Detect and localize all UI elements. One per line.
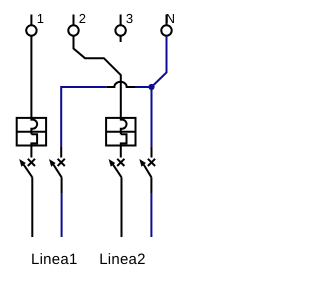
wire neutral horizontal right (blue) xyxy=(136,86,152,88)
wire below S3 xyxy=(121,177,123,237)
svg-text:3: 3 xyxy=(126,11,133,26)
wire T1 to breaker box 1 xyxy=(30,36,32,118)
wire stub T3 xyxy=(120,36,122,42)
wire T2 to breaker box 2 xyxy=(74,36,121,118)
svg-text:2: 2 xyxy=(79,11,86,26)
breaker box 1 magnetic element xyxy=(31,118,37,134)
wire neutral branch down to switch 2 (blue) xyxy=(60,86,62,147)
wire below S4 (blue) xyxy=(150,193,152,237)
breaker box 1 thermal element xyxy=(31,134,37,145)
node junction dot xyxy=(148,84,154,90)
wire crossing hop (black) xyxy=(107,82,136,87)
wire below S1 xyxy=(31,177,33,237)
terminal 1 xyxy=(26,15,36,36)
terminal 3 xyxy=(115,15,125,36)
wire below S2 (blue) xyxy=(61,193,63,237)
terminal 2 xyxy=(68,15,78,36)
breaker box 1 outline xyxy=(17,118,46,146)
svg-text:Linea1: Linea1 xyxy=(31,251,78,268)
wire N vertical and diagonal (blue) xyxy=(152,36,167,87)
breaker box 2 magnetic element xyxy=(121,118,127,134)
wire neutral horizontal left (blue) xyxy=(61,86,106,88)
svg-text:N: N xyxy=(166,11,175,26)
terminal N xyxy=(161,15,171,36)
breaker box 2 thermal element xyxy=(121,134,127,145)
switch S4 contact xyxy=(139,147,155,193)
switch S2 contact xyxy=(49,147,65,193)
switch S3 contact xyxy=(109,146,125,178)
switch S1 contact xyxy=(19,146,35,178)
svg-text:Linea2: Linea2 xyxy=(99,251,146,268)
wire neutral vertical to switch 4 (blue) xyxy=(151,87,153,147)
breaker box 2 outline xyxy=(106,118,135,146)
svg-text:1: 1 xyxy=(37,11,44,26)
